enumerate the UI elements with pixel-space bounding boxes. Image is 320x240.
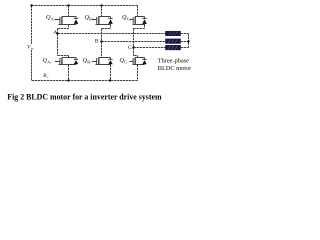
label QC-	[120, 57, 130, 64]
svg-text:A: A	[53, 30, 57, 36]
motor winding phase C	[166, 45, 181, 50]
phase C line wire	[134, 47, 166, 49]
phase B line wire	[102, 41, 166, 43]
diode DB- cathode bar	[108, 58, 112, 60]
top DC bus wire	[32, 5, 138, 7]
svg-text:B+: B+	[89, 16, 95, 21]
diode DA+ cathode bar	[74, 17, 78, 19]
diode DA+ triangle	[74, 19, 79, 24]
diode DB+ triangle	[108, 19, 113, 24]
left DC rail upper wire	[31, 6, 33, 45]
transistor QA+ gate lead	[55, 19, 60, 21]
diode DC- cathode bar	[142, 58, 146, 60]
label QB+	[85, 14, 95, 21]
svg-text:C-: C-	[124, 60, 129, 65]
svg-text:C+: C+	[127, 16, 133, 21]
leg A mid wire	[58, 34, 69, 58]
diode DB+ cathode bar	[108, 17, 112, 19]
diode DA+ cathode lead	[75, 17, 77, 19]
svg-text:B: B	[95, 38, 99, 44]
transistor QA- top lead	[62, 57, 76, 59]
node A dot	[56, 32, 58, 34]
motor winding phase A	[166, 31, 181, 36]
motor star point dot	[187, 40, 189, 42]
node B dot	[100, 40, 102, 42]
transistor QC- top lead	[135, 57, 145, 59]
junction dot bottom leg A	[67, 79, 69, 81]
diode DC+ anode stub	[144, 23, 146, 26]
svg-text:BLDC motor: BLDC motor	[158, 65, 192, 72]
label QB-	[83, 57, 93, 64]
svg-text:B-: B-	[87, 60, 92, 65]
diode DC- cathode lead	[144, 58, 146, 60]
label Vdc	[27, 44, 34, 50]
leg C mid wire	[134, 48, 138, 58]
leg A drain drop wire	[68, 6, 70, 17]
transistor QB- gate bar	[96, 58, 98, 64]
svg-text:Fig 2 BLDC motor for a inverte: Fig 2 BLDC motor for a inverter drive sy…	[7, 93, 162, 102]
leg C source jog wire	[134, 25, 145, 48]
transistor QA- bottom lead	[59, 64, 77, 66]
diode DC+ cathode bar	[142, 17, 146, 19]
leg B source jog wire	[102, 25, 111, 42]
transistor QC+ channel bar	[134, 17, 136, 25]
junction dot top-left	[30, 4, 32, 6]
diode DA- cathode lead	[75, 58, 77, 60]
transistor QB- top lead	[99, 57, 111, 59]
node C dot	[132, 46, 134, 48]
svg-text:A-: A-	[47, 60, 52, 65]
junction dot top leg A	[67, 4, 69, 6]
diode DC+ triangle	[142, 19, 147, 24]
svg-text:A+: A+	[51, 16, 57, 21]
label QA-	[43, 57, 53, 64]
svg-text:C: C	[128, 45, 132, 51]
transistor QB+ channel bar	[98, 17, 100, 25]
svg-text:s: s	[47, 75, 49, 79]
label QC+	[122, 14, 133, 21]
transistor QA- gate bar	[59, 58, 61, 64]
transistor QC+ top lead	[135, 16, 145, 18]
diode DB+ anode stub	[110, 23, 112, 26]
junction dot bottom leg B	[109, 79, 111, 81]
svg-text:dc: dc	[31, 47, 35, 51]
motor stub B wire	[181, 41, 189, 43]
diode DA- triangle	[74, 60, 79, 64]
transistor QC- gate bar	[132, 58, 134, 64]
bottom DC bus wire	[32, 80, 138, 82]
transistor QB- channel bar	[98, 58, 100, 65]
diode DB+ cathode lead	[110, 17, 112, 19]
phase A line wire	[58, 33, 166, 35]
transistor QA+ bottom lead	[59, 24, 77, 26]
diode DC+ cathode lead	[144, 17, 146, 19]
leg B drain drop wire	[101, 6, 103, 17]
label three-phase BLDC motor	[158, 57, 192, 71]
diode DC- triangle	[142, 60, 147, 64]
label QA+	[46, 14, 57, 21]
leg A source jog wire	[58, 25, 69, 34]
transistor QB- bottom lead	[96, 64, 111, 66]
transistor QC- bottom lead	[133, 64, 145, 66]
motor stub A wire	[181, 33, 189, 35]
diode DB- triangle	[108, 60, 113, 64]
transistor QC- channel bar	[134, 58, 136, 65]
motor winding phase B	[166, 39, 181, 44]
transistor QA- channel bar	[61, 58, 63, 65]
transistor QC+ gate lead	[130, 19, 134, 21]
transistor QA+ gate bar	[59, 17, 61, 24]
transistor QB+ bottom lead	[96, 24, 111, 26]
diode DB- cathode lead	[110, 58, 112, 60]
transistor QB- gate lead	[92, 61, 97, 63]
transistor QC+ bottom lead	[133, 24, 145, 26]
left DC rail lower wire	[31, 50, 33, 81]
motor star vertical wire	[188, 34, 190, 48]
transistor QA+ channel bar	[61, 17, 63, 25]
transistor QC+ gate bar	[132, 17, 134, 24]
leg C bottom exit wire	[137, 65, 139, 81]
junction dot top leg B	[100, 4, 102, 6]
leg B mid wire	[101, 42, 103, 58]
transistor QB+ top lead	[99, 16, 111, 18]
motor stub C wire	[181, 47, 189, 49]
transistor QB+ gate lead	[92, 19, 97, 21]
leg B bottom exit wire	[110, 65, 112, 81]
label Rs	[42, 73, 49, 79]
leg A bottom exit wire	[68, 65, 70, 81]
transistor QC- gate lead	[130, 61, 134, 63]
svg-text:Three-phase: Three-phase	[158, 57, 189, 64]
leg C drain drop wire	[137, 6, 139, 17]
transistor QB+ gate bar	[96, 17, 98, 24]
transistor QA+ top lead	[62, 16, 76, 18]
transistor QA- gate lead	[55, 61, 60, 63]
diode DA- cathode bar	[74, 58, 78, 60]
diode DA+ anode stub	[75, 23, 77, 26]
